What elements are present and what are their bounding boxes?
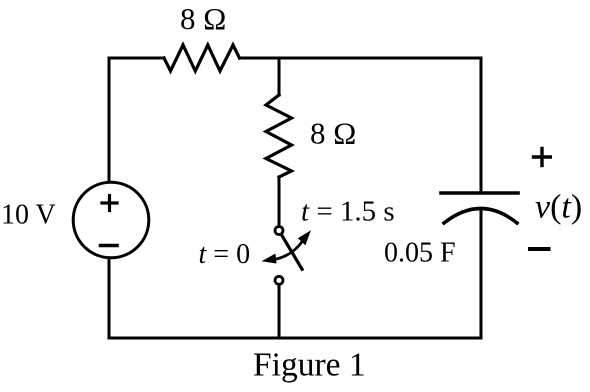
switch S1 bottom contact <box>275 276 283 284</box>
wire middle between resistor and switch <box>278 177 281 226</box>
svg-text:8 Ω: 8 Ω <box>310 116 356 151</box>
svg-text:t = 0: t = 0 <box>199 239 251 270</box>
wire top-right segment <box>240 57 482 60</box>
wire right lower <box>480 209 483 338</box>
svg-text:0.05 F: 0.05 F <box>384 238 456 269</box>
wire middle upper <box>278 58 281 95</box>
bottom wire <box>109 337 481 340</box>
switch blade <box>281 234 302 269</box>
minus polarity capacitor <box>530 247 549 251</box>
switch motion arrowhead left <box>262 254 277 264</box>
svg-text:t = 1.5 s: t = 1.5 s <box>301 196 395 228</box>
minus polarity inside source <box>101 244 118 248</box>
svg-text:v(t): v(t) <box>535 189 582 226</box>
capacitor C1 top plate <box>441 191 518 195</box>
wire top-left segment <box>109 57 164 60</box>
plus polarity capacitor <box>534 149 551 166</box>
svg-text:10 V: 10 V <box>1 200 56 231</box>
svg-text:Figure 1: Figure 1 <box>253 347 366 384</box>
wire left upper <box>108 58 111 182</box>
plus polarity inside source <box>102 196 117 211</box>
wire right upper <box>480 58 483 193</box>
wire middle lower <box>278 285 281 339</box>
switch motion arrowhead right <box>298 230 311 245</box>
switch S1 top contact <box>275 227 283 235</box>
capacitor C1 bottom plate curved <box>444 209 517 224</box>
switch motion arrow arc <box>267 241 303 261</box>
resistor R1 8 ohm top <box>164 45 240 71</box>
svg-text:8 Ω: 8 Ω <box>180 1 226 36</box>
wire left lower <box>108 259 111 339</box>
voltage source V1 circle <box>73 182 149 258</box>
resistor R2 8 ohm middle <box>266 95 292 177</box>
